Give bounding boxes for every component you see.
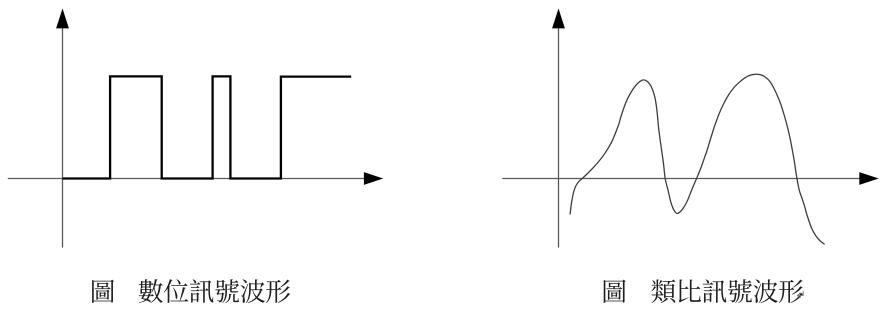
left diagram: x-axis arrowhead [364,172,383,185]
left diagram: digital square waveform [63,76,352,178]
right diagram: y-axis arrowhead [552,9,565,29]
left diagram: y-axis [62,20,64,248]
right diagram: x-axis arrowhead [859,172,878,185]
right diagram: analog waveform curve [570,74,825,244]
right caption: 圖 類比訊號波形 [604,279,804,303]
right diagram: x-axis [502,178,865,180]
right diagram: y-axis [558,20,560,248]
paragraph return mark [798,291,804,298]
left diagram: x-axis [8,178,370,180]
left caption: 圖 數位訊號波形 [92,279,290,303]
left diagram: y-axis arrowhead [56,9,69,29]
